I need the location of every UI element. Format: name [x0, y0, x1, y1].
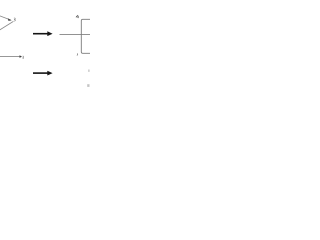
- arrowhead of left-middle edge: [20, 55, 23, 58]
- wire upper edge into top-left node: [0, 16, 11, 21]
- node box (cropped at right edge): [81, 19, 95, 53]
- node label 4 (above box corner): [76, 15, 79, 18]
- node label (left-middle): [23, 56, 24, 59]
- arrow bottom (bold rewrite arrow): [33, 71, 53, 76]
- label mark below box corner: [76, 54, 79, 56]
- wire horizontal edge into box: [60, 33, 91, 35]
- faint cropped mark right edge lower: [87, 84, 89, 87]
- node label s (top-left): [14, 18, 15, 21]
- wire lower edge into top-left node: [0, 21, 13, 30]
- faint cropped mark right edge upper: [88, 70, 90, 72]
- arrowhead of upper edge: [8, 18, 12, 21]
- arrow top (bold rewrite arrow): [33, 31, 53, 36]
- wire left-middle edge: [0, 56, 20, 58]
